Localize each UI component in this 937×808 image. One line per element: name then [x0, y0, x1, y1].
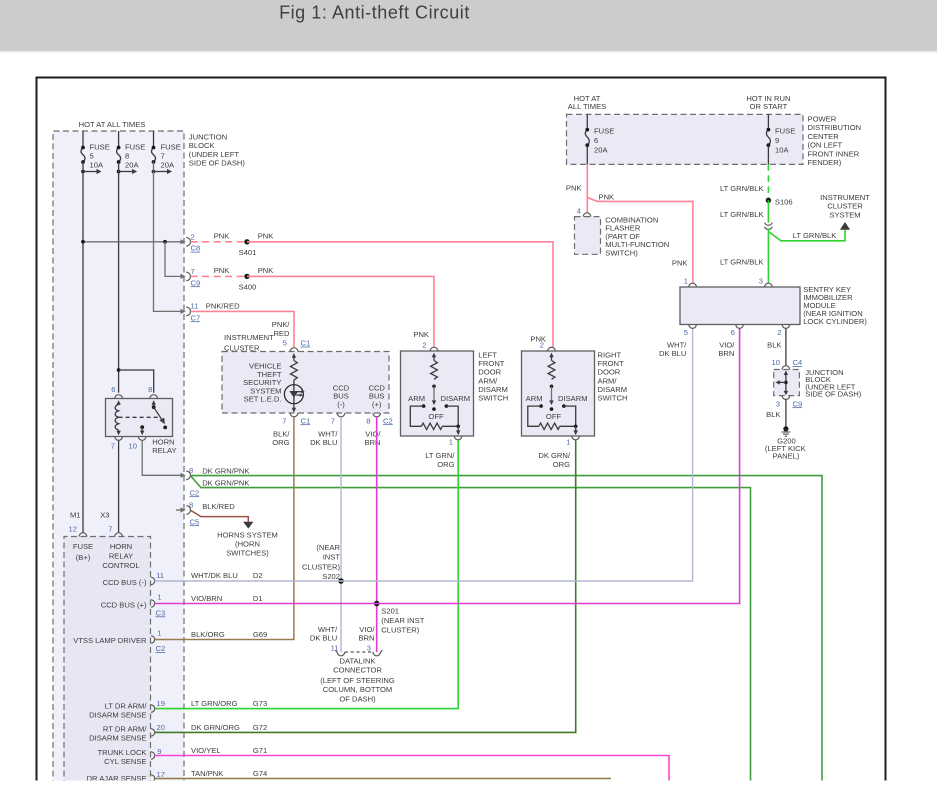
- connector C5 pin 8: [176, 500, 199, 526]
- fuse F5 (FUSE 5 10A): [81, 131, 110, 169]
- svg-text:HORN: HORN: [152, 438, 174, 447]
- svg-text:WHT/DK BLU: WHT/DK BLU: [191, 571, 238, 580]
- svg-text:PNK: PNK: [672, 259, 688, 268]
- svg-text:1: 1: [157, 628, 161, 637]
- relay pin 10 contact: [140, 425, 144, 435]
- svg-text:WHT/: WHT/: [318, 625, 338, 634]
- cluster pin 7 (CCD-): [310, 413, 345, 447]
- svg-text:DK BLU: DK BLU: [310, 438, 337, 447]
- svg-text:C3: C3: [156, 608, 166, 617]
- svg-text:INST: INST: [323, 553, 341, 562]
- svg-text:2: 2: [540, 341, 544, 350]
- relay coil: [115, 400, 121, 435]
- svg-text:BRN: BRN: [358, 634, 374, 643]
- svg-text:PNK: PNK: [258, 266, 274, 275]
- svg-text:LT GRN/BLK: LT GRN/BLK: [793, 231, 837, 240]
- svg-text:VIO/BRN: VIO/BRN: [191, 594, 222, 603]
- relay switch arm: [152, 400, 168, 429]
- clip strip bottom: [0, 781, 937, 808]
- svg-text:10A: 10A: [90, 160, 104, 169]
- svg-text:6: 6: [731, 328, 735, 337]
- svg-text:OR START: OR START: [750, 102, 788, 111]
- node branch to C9: [163, 240, 167, 244]
- splice S401: [239, 239, 257, 257]
- svg-text:COLUMN, BOTTOM: COLUMN, BOTTOM: [323, 685, 392, 694]
- svg-text:11: 11: [191, 302, 199, 311]
- svg-text:BLK/ORG: BLK/ORG: [191, 630, 225, 639]
- svg-text:ARM: ARM: [408, 394, 425, 403]
- diagram frame: [37, 78, 886, 787]
- wire DK GRN/ORG G72 labels: [191, 723, 267, 732]
- cluster pin 5 C1 (top): [283, 339, 310, 352]
- fuse F8 (FUSE 8 20A): [117, 131, 146, 169]
- svg-text:SWITCH): SWITCH): [605, 249, 638, 258]
- module pin 17 DR AJAR SENSE: [87, 770, 165, 783]
- wire relay pin 10 to C2: [142, 440, 186, 478]
- svg-text:1: 1: [684, 277, 688, 286]
- svg-text:(ON LEFT: (ON LEFT: [808, 141, 843, 150]
- svg-text:LT GRN/: LT GRN/: [425, 451, 455, 460]
- svg-text:BLK: BLK: [766, 410, 780, 419]
- svg-text:SWITCHES): SWITCHES): [226, 549, 269, 558]
- svg-text:TAN/PNK: TAN/PNK: [191, 769, 223, 778]
- svg-text:11: 11: [331, 644, 339, 653]
- svg-text:ORG: ORG: [437, 460, 454, 469]
- svg-text:SWITCH: SWITCH: [478, 394, 508, 403]
- svg-text:20A: 20A: [161, 160, 175, 169]
- svg-text:C2: C2: [383, 416, 393, 425]
- svg-text:VIO/YEL: VIO/YEL: [191, 746, 221, 755]
- svg-text:(LEFT OF STEERING: (LEFT OF STEERING: [320, 676, 395, 685]
- svg-text:8: 8: [148, 385, 152, 394]
- svg-text:ORG: ORG: [272, 438, 289, 447]
- svg-text:DATALINK: DATALINK: [339, 656, 375, 665]
- svg-text:(+): (+): [372, 400, 382, 409]
- svg-text:VTSS LAMP DRIVER: VTSS LAMP DRIVER: [73, 636, 147, 645]
- wire DK GRN/PNK lower: [191, 476, 751, 781]
- svg-text:DISARM SENSE: DISARM SENSE: [89, 711, 146, 720]
- wire TAN/PNK G74: [155, 769, 611, 779]
- svg-text:INSTRUMENT: INSTRUMENT: [820, 193, 870, 202]
- svg-text:X3: X3: [100, 510, 109, 519]
- svg-text:SWITCH: SWITCH: [598, 394, 628, 403]
- left door switch internals: [408, 353, 470, 436]
- svg-text:6: 6: [111, 385, 115, 394]
- wire fuse F7 feed to C7: [154, 162, 186, 314]
- svg-text:ALL TIMES: ALL TIMES: [568, 102, 606, 111]
- wire PNK row2 solid to left door pin 2: [214, 266, 434, 347]
- module pin M1/12: [69, 510, 87, 536]
- svg-text:OFF: OFF: [428, 412, 444, 421]
- svg-text:VIO/: VIO/: [359, 625, 375, 634]
- svg-text:S106: S106: [775, 197, 793, 206]
- wire LT GRN/BLK (connector to sentry pin 3): [720, 229, 768, 284]
- cluster CCD BUS (-) label: [333, 383, 350, 408]
- svg-text:S401: S401: [239, 248, 257, 257]
- wire PNK/RED to instrument cluster pin 5: [191, 302, 294, 347]
- wire WHT/DK BLU D2 row (to sentry pin 5): [155, 329, 693, 582]
- svg-text:FRONT INNER: FRONT INNER: [808, 149, 860, 158]
- svg-text:DISARM: DISARM: [441, 394, 471, 403]
- fuse F7 (FUSE 7 20A): [152, 131, 181, 169]
- svg-text:C2: C2: [190, 488, 200, 497]
- svg-text:POWER: POWER: [808, 115, 837, 124]
- horn relay control module (dashed, bottom left): [64, 537, 151, 787]
- svg-text:2: 2: [191, 232, 195, 241]
- svg-text:S400: S400: [239, 283, 257, 292]
- svg-text:SIDE OF DASH): SIDE OF DASH): [805, 390, 862, 399]
- right front door arm/disarm switch box: [522, 335, 628, 447]
- svg-text:RED: RED: [273, 329, 290, 338]
- svg-text:RELAY: RELAY: [109, 552, 133, 561]
- svg-text:RELAY: RELAY: [152, 446, 176, 455]
- svg-text:FUSE: FUSE: [73, 542, 93, 551]
- svg-text:PANEL): PANEL): [773, 451, 800, 460]
- svg-text:INSTRUMENT: INSTRUMENT: [224, 333, 274, 342]
- svg-text:20A: 20A: [594, 146, 608, 155]
- svg-text:RT DR ARM/: RT DR ARM/: [103, 724, 147, 733]
- fuse F7 output arrow: [152, 169, 172, 174]
- wire feed fuse F5 to C8: [81, 239, 186, 244]
- inline connector (LT GRN/BLK): [765, 223, 773, 230]
- svg-text:LT GRN/BLK: LT GRN/BLK: [720, 184, 764, 193]
- svg-text:PNK: PNK: [214, 231, 230, 240]
- module pin 1 C2 VTSS LAMP DRIVER: [73, 628, 165, 653]
- fuse F6 (FUSE 6 20A): [585, 114, 614, 164]
- wire DK GRN/PNK upper: [191, 466, 822, 781]
- svg-text:7: 7: [191, 267, 195, 276]
- svg-text:G71: G71: [253, 746, 267, 755]
- splice S201: [374, 601, 425, 635]
- svg-text:CONTROL: CONTROL: [102, 561, 139, 570]
- svg-text:LT GRN/BLK: LT GRN/BLK: [720, 210, 764, 219]
- module pin X3/7: [100, 510, 122, 536]
- svg-text:M1: M1: [70, 510, 81, 519]
- connector C7 pin 11: [186, 302, 200, 323]
- svg-text:BRN: BRN: [718, 349, 734, 358]
- svg-text:C9: C9: [793, 399, 803, 408]
- svg-text:S201: S201: [381, 607, 399, 616]
- svg-text:FUSE: FUSE: [161, 142, 181, 151]
- module pin 19 LT DR ARM/DISARM SENSE: [89, 699, 165, 719]
- wire VIO/BRN D1 row (to sentry pin 6): [155, 329, 740, 604]
- relay dashed link: [119, 416, 158, 418]
- svg-text:CLUSTER: CLUSTER: [224, 343, 260, 352]
- wire PNK row2 dashed: [191, 275, 247, 277]
- splice S202: [302, 543, 344, 584]
- svg-text:SYSTEM: SYSTEM: [829, 210, 860, 219]
- svg-text:FUSE: FUSE: [90, 142, 110, 151]
- svg-text:ORG: ORG: [553, 460, 570, 469]
- wire LT GRN/BLK branch to instrument cluster system: [768, 230, 845, 241]
- wire BLK/ORG G69 labels: [191, 630, 267, 639]
- svg-text:FUSE: FUSE: [594, 127, 614, 136]
- svg-text:CCD BUS (+): CCD BUS (+): [101, 600, 147, 609]
- svg-text:FENDER): FENDER): [808, 158, 842, 167]
- wire BLK (sentry pin 2 to junction block): [785, 329, 787, 367]
- svg-text:D2: D2: [253, 571, 263, 580]
- wire VIO/YEL G71: [155, 746, 669, 781]
- svg-text:HORN: HORN: [110, 542, 132, 551]
- svg-text:DISTRIBUTION: DISTRIBUTION: [808, 123, 862, 132]
- svg-text:FUSE: FUSE: [125, 142, 145, 151]
- svg-text:C1: C1: [301, 416, 311, 425]
- svg-text:3: 3: [759, 277, 763, 286]
- svg-text:2: 2: [422, 341, 426, 350]
- svg-text:10A: 10A: [775, 146, 789, 155]
- cluster pin 8 C2 (CCD+): [364, 413, 392, 447]
- svg-text:OF DASH): OF DASH): [339, 694, 376, 703]
- svg-text:C8: C8: [191, 244, 201, 253]
- wire LT GRN/BLK (S106 to inline connector): [720, 200, 768, 222]
- svg-text:1: 1: [566, 437, 570, 446]
- svg-text:FUSE: FUSE: [775, 127, 795, 136]
- instrument cluster box: [222, 333, 389, 413]
- fuse F8 output arrow: [117, 169, 137, 174]
- svg-text:10: 10: [129, 441, 137, 450]
- instrument cluster system arrow: [820, 193, 870, 230]
- svg-text:19: 19: [157, 699, 165, 708]
- wire LT GRN/ORG G73 labels: [191, 699, 267, 708]
- svg-text:SIDE OF DASH): SIDE OF DASH): [189, 159, 246, 168]
- module pin 9 TRUNK LOCK CYL SENSE: [98, 747, 162, 766]
- wire branch to relay pin 8: [119, 370, 154, 393]
- combination flasher box: [575, 207, 670, 258]
- wire PNK row1 dashed: [191, 241, 247, 243]
- svg-text:8: 8: [125, 152, 129, 161]
- svg-text:C1: C1: [301, 339, 311, 348]
- svg-text:LT DR ARM/: LT DR ARM/: [105, 701, 148, 710]
- svg-text:5: 5: [684, 328, 688, 337]
- connector C8 pin 2: [186, 232, 200, 252]
- wire BLK/RED to horns system: [191, 502, 249, 523]
- svg-text:DK BLU: DK BLU: [310, 634, 337, 643]
- svg-text:8: 8: [189, 466, 193, 475]
- cluster CCD BUS (+) label: [368, 383, 385, 408]
- svg-text:(B+): (B+): [76, 553, 91, 562]
- fuse F5 output arrow: [81, 169, 101, 174]
- svg-text:DK BLU: DK BLU: [659, 349, 686, 358]
- connector C9 pin 7: [186, 267, 200, 287]
- right door switch internals: [526, 353, 588, 436]
- svg-text:DISARM SENSE: DISARM SENSE: [89, 734, 146, 743]
- svg-text:3: 3: [776, 399, 780, 408]
- svg-text:JUNCTION: JUNCTION: [189, 133, 227, 142]
- label HOT IN RUN OR START: [746, 94, 790, 111]
- wire fuse F8 down to relay pin 6: [118, 162, 120, 393]
- wire VIO/BRN riser (cluster to datalink): [376, 417, 378, 652]
- svg-text:(HORN: (HORN: [235, 540, 260, 549]
- svg-text:CLUSTER): CLUSTER): [381, 626, 419, 635]
- svg-text:C7: C7: [191, 313, 201, 322]
- splice S400: [239, 274, 257, 292]
- svg-text:BLK: BLK: [767, 341, 781, 350]
- wire LT GRN/BLK dashed (fuse 9 to S106): [720, 164, 768, 200]
- svg-text:LOCK CYLINDER): LOCK CYLINDER): [803, 317, 867, 326]
- svg-text:HORNS SYSTEM: HORNS SYSTEM: [217, 531, 278, 540]
- svg-text:PNK/RED: PNK/RED: [206, 302, 240, 311]
- svg-text:BLK/: BLK/: [273, 429, 290, 438]
- svg-text:G69: G69: [253, 630, 267, 639]
- label HOT AT ALL TIMES (PDC): [568, 94, 606, 111]
- svg-text:S202: S202: [322, 572, 340, 581]
- svg-text:6: 6: [594, 136, 598, 145]
- svg-text:DK GRN/PNK: DK GRN/PNK: [202, 479, 249, 488]
- svg-text:WHT/: WHT/: [667, 341, 687, 350]
- svg-text:C4: C4: [793, 358, 803, 367]
- wire PNK branch to sentry pin 1: [587, 192, 693, 283]
- svg-text:7: 7: [161, 152, 165, 161]
- svg-text:CCD BUS (-): CCD BUS (-): [103, 578, 147, 587]
- splice S106: [766, 197, 793, 206]
- svg-text:G74: G74: [253, 769, 267, 778]
- svg-text:PNK: PNK: [566, 184, 582, 193]
- svg-text:CYL SENSE: CYL SENSE: [104, 757, 146, 766]
- svg-text:PNK: PNK: [258, 231, 274, 240]
- svg-text:CONNECTOR: CONNECTOR: [333, 666, 382, 675]
- wire BLK to ground: [766, 399, 786, 426]
- svg-text:HOT AT ALL TIMES: HOT AT ALL TIMES: [79, 120, 146, 129]
- node fuse F8 branch to relay pin 8: [117, 368, 121, 372]
- svg-text:20A: 20A: [125, 160, 139, 169]
- wire PNK fuse 6 to flasher pin 4: [566, 164, 587, 213]
- svg-text:C9: C9: [191, 278, 201, 287]
- junction mini internals: [775, 370, 788, 395]
- module pin 1 C3 CCD BUS (+): [101, 593, 166, 618]
- svg-text:(UNDER LEFT: (UNDER LEFT: [189, 150, 240, 159]
- wire PNK row1 solid to right door pin 2: [214, 231, 553, 347]
- svg-text:8: 8: [189, 500, 193, 509]
- wire LT GRN/ORG (left door pin 1 to module pin 19): [155, 440, 459, 709]
- wire feed to C9: [165, 242, 186, 279]
- datalink connector label: [320, 656, 395, 703]
- svg-text:(NEAR: (NEAR: [316, 543, 340, 552]
- svg-text:BRN: BRN: [364, 438, 380, 447]
- module pin 11 CCD BUS (-): [103, 571, 164, 587]
- cluster pin 7 C1 (bottom, BLK/ORG): [272, 413, 310, 447]
- svg-text:20: 20: [157, 723, 165, 732]
- power distribution center box: [567, 114, 862, 167]
- svg-text:LT GRN/ORG: LT GRN/ORG: [191, 699, 238, 708]
- svg-text:PNK: PNK: [214, 266, 230, 275]
- svg-text:PNK: PNK: [413, 330, 429, 339]
- wire BLK/ORG riser (cluster to G69 row): [155, 417, 294, 640]
- svg-text:C2: C2: [156, 644, 166, 653]
- svg-text:G72: G72: [253, 723, 267, 732]
- horns system arrow: [217, 522, 278, 558]
- junction block J1 (left, dashed): [53, 131, 245, 786]
- svg-text:D1: D1: [253, 594, 263, 603]
- svg-text:ARM: ARM: [526, 394, 543, 403]
- svg-text:1: 1: [157, 593, 161, 602]
- svg-text:7: 7: [331, 416, 335, 425]
- svg-text:CENTER: CENTER: [808, 132, 840, 141]
- svg-text:3: 3: [367, 644, 371, 653]
- svg-text:G73: G73: [253, 699, 267, 708]
- svg-text:9: 9: [157, 747, 161, 756]
- svg-text:DK GRN/PNK: DK GRN/PNK: [202, 466, 249, 475]
- svg-text:12: 12: [69, 524, 77, 533]
- svg-text:4: 4: [577, 207, 581, 216]
- svg-text:7: 7: [111, 441, 115, 450]
- svg-text:VIO/: VIO/: [365, 429, 381, 438]
- svg-text:SET L.E.D.: SET L.E.D.: [244, 395, 282, 404]
- svg-text:C5: C5: [190, 517, 200, 526]
- title bar: [0, 0, 937, 53]
- wire fuse F5 down to M1: [82, 162, 84, 533]
- svg-text:(NEAR INST: (NEAR INST: [381, 616, 424, 625]
- svg-text:BLK/RED: BLK/RED: [202, 502, 235, 511]
- svg-text:WHT/: WHT/: [318, 429, 338, 438]
- svg-text:CLUSTER: CLUSTER: [827, 202, 863, 211]
- svg-text:DK GRN/: DK GRN/: [538, 451, 571, 460]
- svg-text:9: 9: [775, 136, 779, 145]
- svg-text:5: 5: [90, 152, 94, 161]
- svg-text:BLOCK: BLOCK: [189, 141, 215, 150]
- sentry key immobilizer module box: [659, 277, 867, 359]
- datalink connector pins: [310, 625, 382, 656]
- svg-text:11: 11: [156, 571, 164, 580]
- svg-text:(-): (-): [337, 400, 345, 409]
- wire DK GRN/ORG (right door pin 1 to module pin 20): [155, 440, 576, 732]
- wire WHT/DK BLU riser (cluster to datalink): [340, 417, 342, 652]
- module pin 20 RT DR ARM/DISARM SENSE: [89, 723, 165, 743]
- svg-text:LT GRN/BLK: LT GRN/BLK: [720, 257, 764, 266]
- svg-text:PNK/: PNK/: [272, 320, 291, 329]
- svg-text:1: 1: [449, 437, 453, 446]
- VTSS set LED with resistor: [243, 353, 305, 413]
- svg-text:DISARM: DISARM: [558, 394, 588, 403]
- svg-text:7: 7: [108, 524, 112, 533]
- svg-text:PNK: PNK: [599, 192, 615, 201]
- svg-text:OFF: OFF: [546, 412, 562, 421]
- fuse F9 (FUSE 9 10A): [766, 114, 795, 164]
- svg-text:DK GRN/ORG: DK GRN/ORG: [191, 723, 240, 732]
- svg-text:Fig 1: Anti-theft Circuit: Fig 1: Anti-theft Circuit: [279, 3, 470, 23]
- wire relay pin 7 to X3: [118, 440, 120, 533]
- svg-text:CLUSTER): CLUSTER): [302, 562, 340, 571]
- svg-text:VIO/: VIO/: [719, 341, 735, 350]
- svg-text:2: 2: [777, 328, 781, 337]
- svg-text:8: 8: [366, 416, 370, 425]
- left front door arm/disarm switch box: [401, 330, 509, 446]
- svg-text:5: 5: [283, 339, 287, 348]
- svg-text:7: 7: [282, 416, 286, 425]
- junction block mini box (C4/C9): [772, 358, 862, 408]
- svg-text:10: 10: [772, 358, 780, 367]
- svg-text:TRUNK LOCK: TRUNK LOCK: [98, 748, 147, 757]
- connector C2 pin 8: [186, 466, 199, 497]
- horn relay K1 box: [106, 385, 177, 455]
- ground G200: [765, 426, 806, 460]
